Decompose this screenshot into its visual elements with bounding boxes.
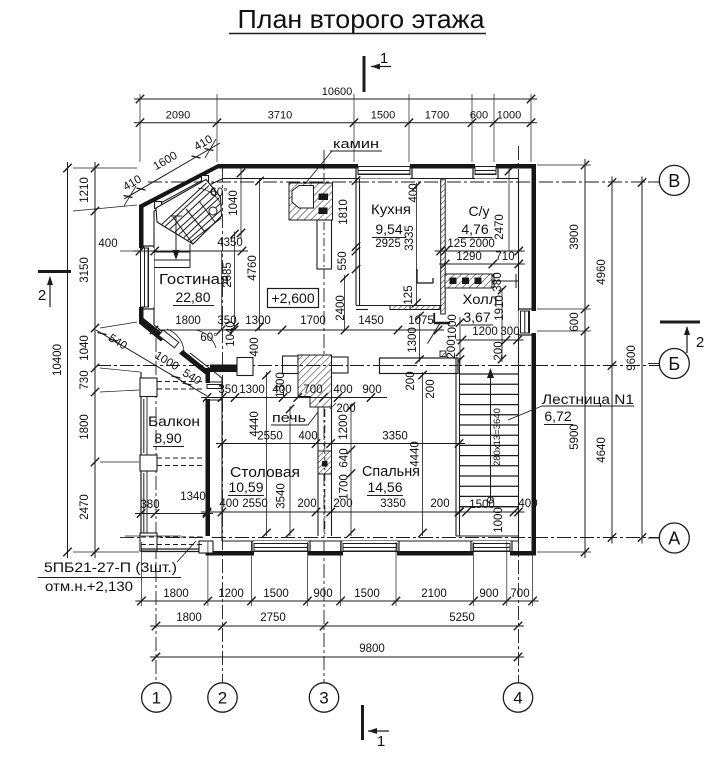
svg-text:1: 1 bbox=[152, 689, 161, 708]
axis circle В bbox=[648, 165, 689, 195]
label Холл 3,67 bbox=[461, 291, 498, 325]
svg-text:3350: 3350 bbox=[380, 498, 406, 510]
dim bottom 9800 bbox=[150, 643, 524, 661]
staircase N1 treads bbox=[460, 374, 519, 507]
pier left of stove bbox=[283, 356, 299, 374]
wall su west hatched (x440) bbox=[441, 179, 446, 314]
svg-text:1700: 1700 bbox=[425, 110, 449, 122]
svg-text:1800: 1800 bbox=[175, 315, 201, 327]
dim ticks 1810/550 on partition bbox=[352, 176, 360, 250]
svg-text:2400: 2400 bbox=[335, 295, 347, 321]
svg-text:9,54: 9,54 bbox=[375, 221, 402, 237]
svg-text:2470: 2470 bbox=[494, 214, 506, 240]
axis circle 3 bbox=[309, 683, 338, 712]
svg-text:640: 640 bbox=[339, 448, 351, 467]
dim line 4760 (living) bbox=[255, 177, 263, 331]
svg-text:2090: 2090 bbox=[166, 110, 190, 122]
svg-text:400: 400 bbox=[333, 384, 352, 396]
svg-text:1500: 1500 bbox=[371, 110, 395, 122]
svg-text:3350: 3350 bbox=[382, 431, 408, 443]
svg-text:14,56: 14,56 bbox=[367, 479, 402, 495]
svg-text:60°: 60° bbox=[210, 187, 227, 199]
hall door jamb and leaf bbox=[428, 313, 451, 344]
svg-text:отм.н.+2,130: отм.н.+2,130 bbox=[45, 579, 133, 594]
dim label 4440 (bedroom) bbox=[410, 441, 422, 467]
winder staircase outline (top-left) bbox=[156, 180, 222, 245]
svg-text:300: 300 bbox=[500, 326, 519, 338]
dim line 1910 (hall) bbox=[498, 286, 506, 363]
label Лестница N1 6,72 with leader bbox=[508, 391, 634, 425]
axis circle 2 bbox=[208, 683, 237, 712]
svg-text:1450: 1450 bbox=[358, 315, 384, 327]
svg-text:550: 550 bbox=[337, 251, 349, 270]
label камин with leader bbox=[305, 136, 382, 184]
axis circle Б bbox=[648, 349, 689, 379]
fireplace (камин) hatched block bbox=[289, 183, 333, 220]
dim chain axis Б south (350 1300 400 700 400 900) bbox=[201, 384, 387, 402]
dim label 1000 (stair bottom) bbox=[493, 507, 505, 533]
svg-text:В: В bbox=[668, 171, 680, 191]
elevation mark +2,600 bbox=[268, 289, 319, 308]
wall exterior left lower bbox=[206, 368, 223, 556]
dim label 200 (bedroom n) bbox=[404, 371, 420, 390]
balcony lintel dashed lines (upper) bbox=[157, 382, 205, 390]
axis Б over stove piers bbox=[283, 365, 348, 367]
svg-text:1000: 1000 bbox=[447, 314, 459, 340]
dim label 1300 (kitchen) bbox=[407, 327, 419, 353]
stove flue wall below (x318-331) bbox=[318, 407, 332, 536]
dim chain hall (1200 300) bbox=[456, 326, 524, 344]
dim chain lower (400 2550 200 3350 200) bbox=[201, 498, 525, 516]
window W-living (left wall) bbox=[139, 246, 154, 309]
window W-su (top wall) bbox=[473, 164, 498, 179]
svg-text:200: 200 bbox=[430, 498, 449, 510]
svg-text:600: 600 bbox=[470, 110, 488, 122]
svg-text:печь: печь bbox=[272, 410, 306, 425]
svg-text:1300: 1300 bbox=[407, 327, 419, 353]
svg-text:2550: 2550 bbox=[257, 431, 283, 443]
svg-text:1290: 1290 bbox=[456, 251, 482, 263]
partition kitchen west (x356) bbox=[356, 179, 360, 305]
section mark 2 (right) bbox=[660, 322, 704, 353]
dim label 200 (hall s2) bbox=[493, 341, 505, 360]
dim label 1040 (bay) bbox=[225, 321, 237, 347]
svg-text:Б: Б bbox=[668, 354, 680, 374]
svg-text:200: 200 bbox=[446, 339, 458, 358]
svg-text:камин: камин bbox=[333, 136, 379, 151]
wall exterior top bbox=[218, 164, 536, 179]
dim label 640 (bedroom) bbox=[339, 448, 351, 467]
dim chain right 2 (4960 4640) bbox=[596, 177, 616, 544]
svg-text:1700: 1700 bbox=[339, 474, 351, 500]
svg-text:4440: 4440 bbox=[249, 411, 261, 437]
dim label 380 (vent block) bbox=[492, 272, 504, 291]
extension lines top dims bbox=[140, 94, 531, 162]
label печь with leader bbox=[271, 410, 318, 425]
svg-text:4960: 4960 bbox=[596, 259, 608, 285]
dim label 1040 (stair) bbox=[228, 168, 245, 238]
label Столовая 10,59 bbox=[228, 464, 300, 496]
dim line 2400 (mid) bbox=[340, 274, 348, 330]
svg-text:1910: 1910 bbox=[494, 295, 506, 321]
axis circle 1 bbox=[142, 683, 171, 712]
door balcony-dining (left lower wall) bbox=[206, 382, 223, 400]
svg-text:10400: 10400 bbox=[52, 344, 64, 376]
section mark 1 (bottom) bbox=[363, 705, 390, 750]
svg-text:1300: 1300 bbox=[239, 384, 265, 396]
label Балкон 8,90 bbox=[148, 413, 200, 447]
svg-text:400: 400 bbox=[249, 337, 261, 356]
landing slab (stair landing bar) bbox=[380, 358, 459, 374]
svg-text:2750: 2750 bbox=[260, 612, 286, 624]
dim label 3335 bbox=[404, 225, 416, 251]
extension lines right dims bbox=[537, 165, 591, 552]
dim line 2685 (living) bbox=[230, 230, 238, 331]
svg-text:Холл: Холл bbox=[463, 291, 498, 307]
svg-text:1: 1 bbox=[380, 50, 388, 67]
svg-text:2925: 2925 bbox=[375, 238, 401, 250]
window W-stair (right wall) bbox=[519, 309, 537, 335]
svg-text:9800: 9800 bbox=[359, 643, 385, 655]
stair bottom room line bbox=[456, 535, 519, 537]
wall exterior left upper bbox=[139, 205, 154, 325]
dim label 4760 bbox=[247, 255, 259, 281]
dim chain dining (2550 400 3350) bbox=[216, 431, 465, 448]
svg-text:10600: 10600 bbox=[322, 86, 353, 98]
svg-text:400: 400 bbox=[408, 183, 420, 202]
wall kitchen south hatched bbox=[356, 306, 440, 310]
dim label 200 (hall s) bbox=[446, 339, 458, 358]
dim chain 1200-640-1700 (bedroom west) bbox=[347, 402, 355, 537]
angle 60deg (bay) bbox=[196, 330, 218, 348]
dimension 10600 (top overall) bbox=[134, 86, 537, 103]
svg-text:400: 400 bbox=[298, 431, 317, 443]
svg-text:700: 700 bbox=[303, 384, 322, 396]
kitchen counter corner bbox=[417, 269, 433, 283]
staircase N1 label 280x13=3640 bbox=[492, 408, 503, 466]
svg-text:600: 600 bbox=[569, 312, 581, 331]
angle 60deg (stair) bbox=[198, 187, 228, 206]
svg-text:4640: 4640 bbox=[596, 437, 608, 463]
axis line 4 (vertical) bbox=[518, 146, 520, 684]
svg-text:3150: 3150 bbox=[79, 257, 91, 283]
svg-text:1700: 1700 bbox=[300, 315, 326, 327]
diagonal dim chain 410 1600 410 bbox=[121, 133, 220, 206]
pier hall south-west (small hatched) bbox=[440, 351, 446, 357]
dim label 1910 (hall) bbox=[494, 295, 506, 321]
dim right 9600 bbox=[626, 177, 646, 544]
dim vertical x460 (1000/200) bbox=[456, 317, 464, 365]
winder staircase treads bbox=[161, 183, 221, 244]
label Спальня 14,56 bbox=[362, 463, 420, 496]
dim label 200 with leader (dining) bbox=[330, 403, 356, 415]
axis circle 4 bbox=[503, 683, 532, 712]
svg-text:Лестница N1: Лестница N1 bbox=[542, 391, 634, 407]
svg-text:1800: 1800 bbox=[163, 588, 189, 600]
svg-text:2000: 2000 bbox=[469, 238, 495, 250]
svg-text:4760: 4760 bbox=[247, 255, 259, 281]
wall su south / vent block bbox=[445, 274, 519, 288]
dimension chain top (2090 3710 1500 1700 600 1000) bbox=[134, 110, 537, 127]
svg-text:2685: 2685 bbox=[222, 262, 234, 288]
window W-kitchen (top wall) bbox=[356, 164, 412, 179]
svg-text:125: 125 bbox=[403, 285, 415, 304]
fireplace chimney shaft bbox=[317, 220, 332, 269]
svg-text:1210: 1210 bbox=[79, 177, 91, 203]
staircase N1 up arrow bbox=[487, 368, 494, 503]
svg-text:1800: 1800 bbox=[79, 414, 91, 440]
window W-chamfer (diagonal wall) bbox=[155, 176, 209, 212]
dim line 2470 (su) bbox=[505, 167, 513, 251]
dim chain bottom 2 (1800 2750 5250) bbox=[150, 612, 524, 630]
balcony lintel dashed lines (lower) bbox=[141, 537, 203, 545]
svg-text:1200: 1200 bbox=[218, 588, 244, 600]
extension lines bottom dims bbox=[141, 542, 532, 606]
wall exterior right bbox=[519, 164, 537, 556]
wall exterior bottom bbox=[210, 541, 536, 556]
svg-text:730: 730 bbox=[79, 370, 91, 389]
svg-text:+2,600: +2,600 bbox=[271, 290, 314, 306]
svg-text:10,59: 10,59 bbox=[228, 479, 263, 495]
dim label 2400 bbox=[335, 295, 347, 321]
door su (opening jambs) bbox=[494, 274, 516, 288]
stove (печь) hatched block bbox=[298, 355, 332, 407]
section mark 2 (left) bbox=[38, 272, 71, 308]
svg-text:400: 400 bbox=[219, 498, 238, 510]
svg-text:2550: 2550 bbox=[242, 498, 268, 510]
svg-text:1500: 1500 bbox=[263, 588, 289, 600]
dim label 200 leader (bedroom n2) bbox=[425, 379, 437, 398]
dim stair bottom (1500 400) bbox=[455, 498, 537, 516]
svg-text:1075: 1075 bbox=[408, 315, 434, 327]
dim label 125 (kitchen) bbox=[403, 285, 415, 304]
svg-text:1800: 1800 bbox=[176, 612, 202, 624]
balcony left wall with windows bbox=[140, 372, 157, 552]
svg-text:3: 3 bbox=[319, 689, 328, 708]
svg-text:2: 2 bbox=[696, 334, 704, 351]
dim chain su (1290 710) bbox=[439, 251, 525, 268]
axis line А (horizontal) bbox=[120, 537, 664, 539]
svg-text:5ПБ21-27-П (3шт.): 5ПБ21-27-П (3шт.) bbox=[44, 560, 177, 575]
svg-text:А: А bbox=[668, 529, 680, 549]
svg-text:350: 350 bbox=[218, 384, 237, 396]
svg-text:900: 900 bbox=[362, 384, 381, 396]
svg-text:Балкон: Балкон bbox=[148, 413, 200, 429]
dim chain bottom 1 (1800 1200 1500 900 1500 2100 900 700) bbox=[135, 588, 538, 605]
balcony lintel dashed lines (middle) bbox=[157, 458, 205, 466]
dim label 550 bbox=[337, 245, 360, 275]
svg-text:900: 900 bbox=[313, 588, 332, 600]
svg-text:6,72: 6,72 bbox=[544, 408, 571, 424]
dim line 3335 (kitchen) bbox=[412, 182, 420, 307]
svg-text:380: 380 bbox=[140, 499, 159, 511]
svg-text:1300: 1300 bbox=[275, 372, 287, 398]
svg-text:4350: 4350 bbox=[217, 237, 243, 249]
label Кухня 9,54 2925 bbox=[371, 201, 411, 250]
dim label 2685 bbox=[222, 262, 234, 288]
svg-text:2100: 2100 bbox=[421, 588, 447, 600]
svg-text:4: 4 bbox=[513, 689, 522, 708]
svg-text:280x13=3640: 280x13=3640 bbox=[492, 408, 503, 466]
svg-text:8,90: 8,90 bbox=[154, 430, 181, 446]
winder stair circle bbox=[209, 207, 217, 215]
dim 4350 over stair bbox=[133, 237, 248, 255]
note 5ПБ21-27-П (3шт.) / отм.н.+2,130 bbox=[38, 541, 196, 594]
dim label 1810 (fireplace) bbox=[338, 199, 350, 225]
dim label 400 (kitchen window side) bbox=[408, 183, 420, 202]
svg-text:1300: 1300 bbox=[245, 315, 271, 327]
dim chain balcony (380 1340) bbox=[135, 491, 213, 518]
svg-text:2: 2 bbox=[38, 287, 46, 304]
window W-bedroom (bottom wall) bbox=[341, 541, 399, 556]
svg-text:3540: 3540 bbox=[276, 483, 288, 509]
svg-text:700: 700 bbox=[510, 588, 529, 600]
svg-text:900: 900 bbox=[479, 588, 498, 600]
svg-text:1040: 1040 bbox=[225, 321, 237, 347]
svg-text:Кухня: Кухня bbox=[371, 201, 411, 217]
axis line 2 (vertical) bbox=[222, 168, 224, 684]
extension line x221.5 living room bbox=[221, 251, 223, 330]
dim chain mid (1800 350 1300 1700 1450 1075) bbox=[148, 315, 444, 334]
dim label 1700 (bedroom) bbox=[339, 474, 351, 500]
svg-text:1500: 1500 bbox=[354, 588, 380, 600]
svg-text:1000: 1000 bbox=[497, 110, 521, 122]
balcony bottom wall bbox=[141, 541, 213, 553]
stairwell west wall (x456-459) bbox=[456, 358, 460, 536]
svg-text:4,76: 4,76 bbox=[461, 221, 488, 237]
svg-text:1200: 1200 bbox=[472, 326, 498, 338]
svg-text:5250: 5250 bbox=[449, 612, 475, 624]
dim label 1300 (stove) bbox=[275, 372, 287, 398]
svg-text:125: 125 bbox=[447, 238, 466, 250]
axis line 3 (vertical) bbox=[323, 150, 325, 684]
extension lines left dims bbox=[73, 168, 140, 552]
dim line 3540 (dining) bbox=[286, 405, 294, 537]
dim label 400 (left wall top) bbox=[98, 238, 139, 251]
svg-text:Гостиная: Гостиная bbox=[159, 271, 229, 288]
svg-text:22,80: 22,80 bbox=[175, 289, 210, 305]
label С/у 4,76 bbox=[458, 203, 492, 238]
svg-text:2: 2 bbox=[218, 689, 227, 708]
svg-text:1000: 1000 bbox=[493, 507, 505, 533]
svg-text:400: 400 bbox=[518, 498, 537, 510]
svg-text:3,67: 3,67 bbox=[463, 309, 490, 325]
axis line Б (horizontal) bbox=[97, 365, 663, 367]
svg-text:5900: 5900 bbox=[569, 424, 581, 450]
svg-text:1040: 1040 bbox=[228, 190, 240, 216]
svg-text:С/у: С/у bbox=[469, 203, 490, 219]
svg-text:4440: 4440 bbox=[410, 441, 422, 467]
wall exterior chamfer (diagonal) bbox=[139, 164, 223, 211]
window W-stairwell (bottom wall) bbox=[471, 541, 512, 556]
svg-text:План второго этажа: План второго этажа bbox=[238, 4, 486, 34]
svg-text:9600: 9600 bbox=[626, 345, 638, 371]
dim label 1000 (hall) bbox=[447, 314, 459, 340]
svg-text:1810: 1810 bbox=[338, 199, 350, 225]
dim line 4440 (dining) bbox=[262, 371, 270, 537]
svg-text:710: 710 bbox=[495, 251, 514, 263]
dim label 1200 (bedroom) bbox=[338, 414, 350, 440]
svg-text:3900: 3900 bbox=[569, 224, 581, 250]
dim label 4440 (dining) bbox=[249, 411, 261, 437]
title: План второго этажа bbox=[229, 4, 486, 34]
dim chain right 1 (3900 600 5900) bbox=[569, 159, 589, 558]
dim label 3540 (dining) bbox=[276, 483, 288, 509]
svg-text:400: 400 bbox=[98, 238, 117, 250]
svg-text:200: 200 bbox=[297, 498, 316, 510]
axis line В (horizontal) bbox=[148, 181, 662, 183]
dim left 10400 bbox=[52, 162, 72, 558]
label Гостиная 22,80 bbox=[159, 271, 229, 306]
svg-text:1340: 1340 bbox=[180, 491, 206, 503]
dim label 400 (bay) bbox=[249, 337, 261, 356]
door balcony-living (in bay wall) leaf and swing bbox=[159, 329, 184, 351]
svg-text:1: 1 bbox=[377, 733, 385, 750]
wall exterior bay diagonal bbox=[139, 318, 222, 378]
dim chain su (125 2000) bbox=[435, 238, 525, 255]
svg-text:2470: 2470 bbox=[79, 494, 91, 520]
section mark 1 (top) bbox=[364, 50, 391, 92]
lower flight treads (left wall) bbox=[154, 244, 190, 268]
dim chain left (1210 3150 1040 730 1800 2470) bbox=[79, 162, 99, 558]
svg-text:200: 200 bbox=[405, 371, 417, 390]
winder stair down arrow bbox=[170, 216, 182, 260]
axis line 1 (vertical) bbox=[155, 338, 157, 684]
extension line left of balcony y536 bbox=[125, 535, 181, 537]
svg-text:3710: 3710 bbox=[268, 110, 292, 122]
pier right of stove bbox=[332, 357, 349, 373]
window W-dining (bottom wall) bbox=[252, 541, 310, 556]
dim line 1300 (hall west) bbox=[415, 312, 423, 364]
svg-text:1200: 1200 bbox=[338, 414, 350, 440]
svg-text:60°: 60° bbox=[200, 332, 217, 344]
svg-text:1500: 1500 bbox=[469, 499, 495, 511]
axis circle А bbox=[648, 523, 689, 553]
svg-text:200: 200 bbox=[425, 379, 437, 398]
diagonal dim 540 1000 540 (bay) bbox=[96, 330, 207, 396]
wall on axis Б west segment bbox=[210, 358, 253, 376]
dim line 4440 (bedroom) bbox=[418, 371, 426, 537]
svg-text:1040: 1040 bbox=[79, 335, 91, 361]
svg-text:3335: 3335 bbox=[404, 225, 416, 251]
dim label 2470 (su) bbox=[494, 214, 506, 240]
